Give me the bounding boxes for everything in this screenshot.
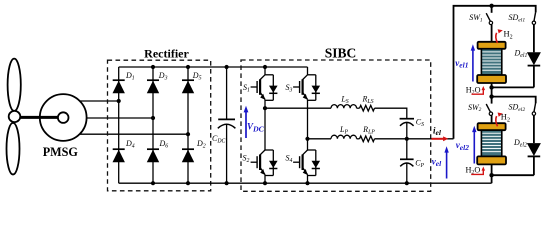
wire LP branch — [308, 138, 332, 140]
output wire — [407, 138, 454, 140]
electrolyzer 1 stack — [481, 49, 501, 75]
v_el2 arrow — [472, 126, 476, 164]
top rail — [119, 66, 308, 68]
electrolyzer 1 top electrode — [478, 42, 506, 49]
wire — [357, 138, 360, 140]
diode D_el2 — [492, 143, 541, 175]
svg-text:Rectifier: Rectifier — [144, 47, 189, 61]
v_el1 arrow — [471, 44, 475, 81]
switch SW1 — [486, 6, 492, 42]
inductor LS — [331, 105, 357, 109]
rectifier dashed box — [108, 60, 211, 191]
diode D4 — [113, 149, 125, 162]
turbine hub — [9, 111, 21, 122]
node block1 top — [489, 4, 493, 8]
PMSG generator circle — [40, 94, 87, 141]
node phase C — [186, 132, 190, 136]
H2 arrow 2 — [496, 113, 503, 127]
switch SD_el2 — [532, 103, 535, 143]
IGBT S1 — [251, 67, 274, 108]
electrolyzer 2 top electrode — [478, 123, 506, 130]
diode D6 — [147, 149, 159, 162]
node phase B — [151, 116, 155, 120]
svg-text:vel1: vel1 — [455, 58, 468, 70]
svg-text:iel: iel — [433, 126, 442, 138]
capacitor CDC — [218, 119, 236, 128]
IGBT S3 — [293, 67, 316, 139]
IGBT S2 — [251, 108, 274, 183]
node CDC top — [225, 65, 229, 69]
node block2 top — [489, 94, 493, 98]
rectifier leg 1 wire — [118, 67, 120, 183]
wire to output node — [375, 138, 407, 140]
phase wire B — [70, 117, 153, 119]
capacitor CP wire top — [406, 139, 408, 159]
capacitor CP — [400, 159, 414, 166]
diode D2 — [182, 149, 194, 162]
wire LS branch — [265, 107, 331, 109]
phase wire C — [70, 133, 188, 135]
IGBT S1 diode — [269, 75, 278, 101]
wind turbine blade top — [8, 59, 21, 111]
diode D5 — [182, 80, 194, 93]
H2O arrow 1 — [472, 86, 486, 94]
node S2 emitter — [263, 181, 267, 185]
i_el arrow — [432, 136, 449, 141]
capacitor CS — [400, 119, 414, 126]
SIBC dashed box — [241, 60, 431, 191]
svg-text:PMSG: PMSG — [43, 145, 79, 159]
diode D3 — [147, 80, 159, 93]
wind turbine blade bottom — [7, 123, 20, 175]
node S1 emitter — [263, 106, 267, 110]
v_el arrow — [444, 146, 448, 178]
inductor LP — [331, 135, 357, 139]
wire CP bottom — [406, 163, 408, 183]
electrolyzer 2 bottom electrode — [477, 156, 506, 164]
wire electrolyzer1 bottom — [491, 83, 493, 97]
electrolyzer 2 stack — [481, 130, 501, 156]
svg-text:vel2: vel2 — [456, 140, 469, 152]
IGBT S2 diode — [269, 150, 278, 176]
node block1 bottom — [489, 85, 493, 89]
IGBT S4 diode — [312, 150, 321, 176]
wire — [357, 107, 360, 109]
capacitor CDC wire top — [226, 67, 228, 119]
node block2 bottom — [489, 173, 493, 177]
shaft — [20, 116, 60, 119]
riser and block1 top edge — [454, 6, 536, 139]
node phase A — [117, 99, 121, 103]
node CP bottom — [405, 181, 409, 185]
IGBT S3 diode — [312, 75, 321, 101]
diode D_el1 — [492, 52, 541, 87]
resistor RLP — [360, 136, 375, 142]
node output — [405, 137, 409, 141]
node rail top leg3 — [186, 65, 190, 69]
H2O arrow 2 — [471, 167, 485, 175]
svg-text:SIBC: SIBC — [325, 46, 357, 61]
wire CS bottom — [406, 123, 408, 139]
node S4 emitter — [305, 181, 309, 185]
capacitor CDC wire bottom — [226, 125, 228, 184]
wire electrolyzer2 bottom — [491, 164, 493, 183]
bottom rail — [119, 182, 492, 184]
rectifier leg 2 wire — [152, 67, 154, 183]
phase wire A — [70, 100, 119, 102]
electrolyzer 1 bottom electrode — [477, 75, 506, 83]
diode D1 — [113, 80, 125, 93]
node CDC bottom — [225, 181, 229, 185]
wire to CS — [375, 108, 407, 118]
node rail bottom leg2 — [151, 181, 155, 185]
block2 top edge — [492, 97, 536, 104]
H2 arrow 1 — [496, 29, 503, 43]
switch SW2 — [486, 97, 492, 124]
switch SD_el1 — [532, 12, 535, 52]
rectifier leg 3 wire — [187, 67, 189, 183]
node rail bottom leg3 — [186, 181, 190, 185]
node S1 collector — [263, 65, 267, 69]
svg-text:vel: vel — [432, 156, 442, 168]
resistor RLS — [360, 105, 375, 111]
VDC arrow — [244, 106, 249, 138]
PMSG inner circle — [58, 112, 69, 123]
node rail top leg2 — [151, 65, 155, 69]
node S3 emitter — [305, 137, 309, 141]
IGBT S4 — [293, 139, 316, 183]
